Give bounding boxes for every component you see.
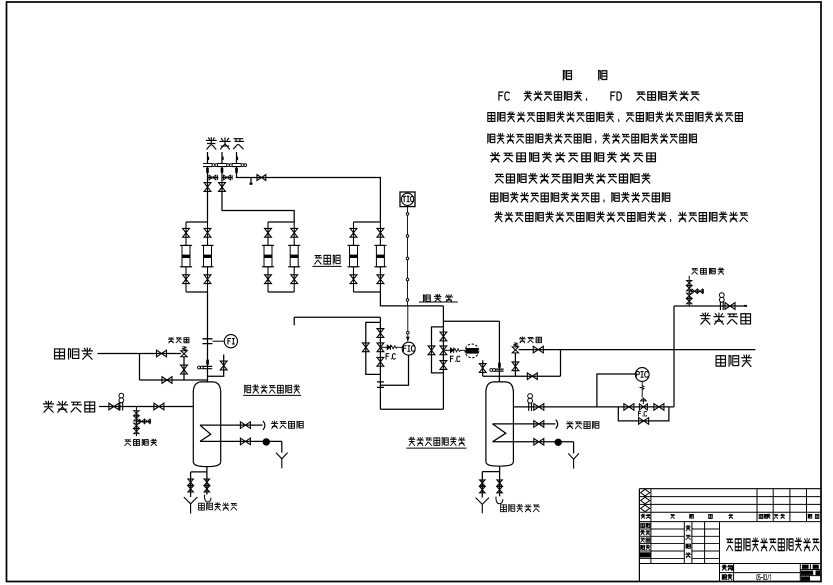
pressure-reduction main line: [442, 306, 444, 409]
steam valve lower (V2): [534, 439, 544, 446]
arrestor pair 2 bottom header: [268, 291, 294, 293]
instrument FIC text: [403, 346, 414, 352]
flame arrestor 3B (arm): [379, 222, 381, 292]
instrument TRC text: [466, 348, 479, 354]
flame arrestor 1B (arm): [207, 222, 209, 292]
HP spectacle blind (vessel side): [529, 403, 532, 411]
branch 1 tick: [207, 157, 209, 160]
label chui-sao-zheng-qi left: [125, 439, 157, 445]
arrestor pair 3 bottom header: [354, 291, 381, 293]
branch 1 valve: [204, 183, 211, 192]
PSV-1 inlet line: [183, 357, 185, 380]
LP spectacle blind: [120, 403, 123, 411]
label F.C (station 2): [450, 356, 459, 362]
label F.C (station 1): [386, 354, 395, 360]
station-1 block valve upper: [377, 329, 384, 338]
LP purge steam branch: [135, 407, 137, 437]
vessel-1 flare header valve: [162, 377, 172, 384]
vessel-2 flange marks: [490, 369, 493, 372]
instrument PIC text: [636, 372, 648, 378]
label jin-huo-ju (burner inlet): [206, 138, 243, 149]
label an-quan-fa left (safety valve): [168, 337, 189, 342]
arrestor pair 3 top header: [354, 221, 381, 223]
HP inlet valve: [725, 303, 735, 310]
drain funnel (V1 steam): [276, 453, 288, 469]
left drain valve (V2): [480, 480, 485, 486]
instrument FI text: [228, 339, 235, 345]
LP gas valve 2: [154, 403, 164, 410]
PIC bypass loop: [618, 407, 669, 421]
drawing number: [757, 575, 771, 580]
HP inlet end tick: [744, 305, 747, 307]
instrument TRC circle (dashed): [465, 344, 479, 358]
title block left labels: [641, 523, 650, 527]
notes line 7: [495, 212, 666, 222]
label F.C (PIC): [638, 411, 646, 416]
flange mark circles 2: [227, 164, 230, 167]
vessel-1 bottom header: [191, 471, 207, 473]
station outlet header: [380, 408, 443, 410]
branch 3 lower line: [237, 166, 381, 222]
safety valve PSV-2: [512, 347, 518, 353]
label di-ya-wa-si (LP gas): [43, 401, 94, 412]
vessel-2 nozzle bold tick: [498, 363, 501, 368]
condensate drop (V1): [281, 441, 283, 452]
valve on branch-3 header: [257, 175, 266, 181]
HP purge steam branch: [688, 276, 690, 306]
drip stub on branch-3 header: [250, 178, 252, 183]
flange mark circles 1: [212, 164, 215, 167]
notes line 1a: [524, 91, 581, 100]
flare tee drop: [139, 354, 141, 381]
instrument FIC circle: [402, 342, 415, 355]
vessel-2 safety header: [483, 375, 561, 377]
title block bottom grid: [733, 564, 735, 582]
station-1 main line: [379, 317, 381, 409]
vertical specialty column text: [686, 526, 690, 531]
HP vessel block valve: [534, 404, 544, 411]
branch 3 tick: [236, 157, 238, 160]
vessel-2 riser: [498, 321, 500, 382]
label HP separator tank: [409, 437, 465, 445]
zu-huo-qi underline: [312, 265, 341, 267]
station-2 bypass loop: [432, 327, 444, 373]
label LP separator tank: [245, 385, 300, 393]
label qu-hui-shou-xi-tong right: [501, 504, 540, 511]
label zu-huo-qi (flame arrestor): [315, 255, 340, 264]
branch 2 stub valve: [224, 175, 231, 180]
vessel-1 nozzle flange: [203, 366, 212, 368]
burner flange pair: [203, 164, 212, 167]
station-1 feed header: [294, 316, 380, 318]
station-1 actuator takeoff: [380, 346, 387, 348]
station-1 pneumatic signal: [391, 346, 403, 349]
notes title shuo: [563, 70, 571, 79]
station-2 block valve upper: [440, 332, 447, 341]
sample stub below feed header: [293, 317, 295, 325]
label huo-ju-xian right (flare line): [716, 355, 751, 366]
steam valve upper (V2): [534, 421, 544, 428]
notes line 2: [488, 112, 614, 122]
steam continuation hook (V2): [556, 420, 558, 429]
steam trap (V2): [555, 439, 561, 445]
vessel-2 left drain: [481, 472, 483, 498]
vessel-2 nozzle flange: [495, 369, 503, 371]
notes title ming: [599, 70, 607, 79]
PIC control valve: [639, 404, 647, 410]
recovery J-hook (V1): [204, 495, 211, 502]
PIC pneumatic signal: [640, 381, 644, 397]
station-2 bypass valve: [428, 346, 435, 355]
vessel-2 vent branch: [482, 360, 484, 376]
flare tee down to safety header: [560, 350, 562, 377]
HP gas feed line: [513, 406, 674, 408]
station-2 control valve: [440, 346, 447, 355]
vessel-2 vent valve: [479, 364, 486, 373]
vessel-2 riser header: [443, 320, 499, 322]
vessel-1 coil upper line: [200, 424, 263, 426]
station-1 control valve: [377, 343, 384, 352]
flange mark circles 3: [241, 164, 244, 167]
branch 2 valve: [219, 183, 226, 192]
station-1 block valve lower: [377, 357, 384, 366]
pilot gas line: [380, 292, 443, 306]
station-1 bypass loop: [366, 322, 381, 374]
PIC block valve right: [654, 404, 664, 411]
station-2 pneumatic signal: [454, 349, 465, 352]
notes line 5: [495, 174, 650, 184]
revision diamond 3: [641, 505, 650, 512]
flame arrestor 3A (arm): [353, 222, 355, 292]
vessel-1 nozzle bold tick: [206, 360, 209, 365]
instrument PIC circle: [635, 368, 649, 382]
LP gas valve 1: [109, 403, 119, 410]
safety header valve (V2): [527, 373, 537, 380]
vessel V-1 LP gas separator: [193, 382, 220, 391]
notes line 1b: [637, 91, 699, 100]
vessel V-2 HP gas separator: [486, 382, 514, 391]
burner branch line 2: [221, 152, 223, 164]
title block frame and revision rows: [638, 489, 640, 582]
notes line 4: [491, 152, 656, 162]
burner flange pair: [232, 164, 241, 167]
HP spectacle blind (inlet): [720, 302, 723, 310]
vessel-1 right drain: [206, 472, 208, 495]
left drain valve (V1): [188, 479, 193, 485]
notes line 3: [488, 134, 591, 144]
flare line valve: [157, 350, 167, 357]
drain funnel (V2 steam): [568, 453, 579, 468]
vessel-2 coil lower line: [493, 441, 574, 443]
orifice flange pair (FI): [203, 339, 213, 344]
vessel-1 bottom nozzle: [206, 467, 208, 472]
branch 1 bold tick: [206, 168, 209, 173]
label chui-sao-zheng-qi right: [692, 268, 724, 274]
title block middle grid: [650, 522, 652, 564]
steam trap (V1): [263, 439, 269, 445]
label jia-re-zheng-qi right: [567, 421, 599, 428]
drain funnel (V2 bottom): [476, 498, 489, 514]
revision row headers: [641, 514, 650, 518]
branch 2 bold tick: [221, 168, 224, 173]
notes line 1 FD: [611, 92, 621, 100]
label qu-hui-shou-xi-tong left: [199, 503, 237, 510]
bottom label cells: [722, 565, 732, 570]
flame arrestor 2B (arm): [293, 222, 295, 292]
sheet/scale cells: [802, 565, 809, 569]
PIC block valve left: [624, 404, 634, 411]
branch 2 side stub: [222, 177, 233, 179]
label chang-ming-deng (pilot light): [423, 295, 452, 302]
station-2 positioner: [450, 348, 453, 353]
station-1 positioner: [387, 345, 390, 350]
flame arrestor 2A (arm): [267, 222, 269, 292]
branch 2 tick: [222, 157, 224, 160]
station-1 bypass valve: [362, 343, 369, 352]
drawing title text: [727, 538, 819, 551]
TIC signal line (capillary with beads): [407, 207, 409, 213]
vessel-2 bottom nozzle: [499, 466, 501, 471]
vessel-2 bottom header: [482, 471, 499, 473]
revision diamond 2: [641, 497, 650, 504]
branch 1 stub valve: [209, 175, 216, 180]
drain funnel (V1 bottom): [184, 497, 198, 514]
PSV-2 inlet valve: [512, 362, 519, 371]
burner branch line 3: [236, 152, 238, 164]
LP separator label underline: [243, 394, 301, 396]
steam valve lower (V1): [240, 438, 250, 445]
station-2 actuator takeoff: [443, 349, 450, 351]
instrument TIC square: [400, 192, 415, 207]
vessel-2 right drain: [499, 472, 501, 497]
flare line valve (PSV-2 discharge): [533, 346, 543, 353]
branch 3 bold tick: [235, 168, 238, 173]
flare line right: [519, 349, 756, 351]
vessel-1 left drain: [190, 472, 192, 497]
safety valve PSV-1: [181, 351, 187, 357]
arrestor pair 1 bottom header: [186, 291, 208, 293]
condensate drop (V2): [573, 442, 575, 454]
vessel-1 flare header: [140, 379, 208, 381]
label huo-ju-xian left (flare line): [55, 348, 93, 359]
instrument TIC circle: [401, 193, 413, 205]
right drain valve (V1): [204, 479, 209, 485]
PIC impulse line: [597, 374, 635, 407]
instrument FI circle: [224, 335, 237, 348]
TIC signal arrow into FIC: [407, 306, 409, 331]
burner branch line 1: [207, 152, 209, 164]
steam valve upper (V1): [240, 422, 250, 429]
right drain valve (V2): [497, 480, 502, 486]
PSV-1 inlet valve: [181, 365, 188, 374]
label jia-re-zheng-qi left (heating steam): [271, 421, 303, 428]
vessel-1 vent branch: [208, 355, 224, 377]
station-2 block valve lower: [440, 361, 447, 370]
chang-ming-deng underline: [419, 301, 458, 303]
steam continuation hook (V1): [263, 421, 265, 430]
branch 1 lower line: [207, 166, 209, 222]
FI impulse line: [213, 340, 225, 342]
recovery J-hook (V2): [496, 497, 503, 504]
HP separator label underline: [406, 447, 466, 449]
arrestor pair 1 top header: [186, 221, 208, 223]
orifice flange pair (station 1): [377, 382, 384, 388]
HP gas riser: [673, 306, 675, 407]
instrument TIC text: [403, 196, 414, 201]
vessel-1 coil lower line: [200, 440, 282, 442]
notes line 1 FC: [499, 92, 509, 100]
vessel-1 coil zigzag: [200, 425, 211, 441]
vessel-1 flange marks: [198, 366, 201, 369]
LP gas line: [99, 406, 193, 408]
notes line 6: [491, 192, 599, 202]
vessel-1 riser: [207, 292, 209, 382]
branch 1 side stub: [208, 177, 219, 179]
HP gas inlet line: [674, 305, 746, 307]
burner flange pair: [218, 164, 227, 167]
FIC impulse line: [380, 355, 408, 385]
label an-quan-fa right: [520, 337, 542, 343]
vessel-2 coil zigzag: [493, 424, 506, 442]
arrestor pair 2 top header: [268, 221, 294, 223]
vessel-1 vent valve: [220, 361, 227, 370]
branch 2 lower line: [222, 166, 294, 222]
flare line left: [98, 353, 182, 355]
vessel-2 coil upper line: [493, 423, 556, 425]
flame arrestor 1A (arm): [185, 222, 187, 292]
PSV-2 inlet line: [514, 353, 516, 376]
label gao-ya-wa-si (HP gas): [700, 313, 750, 324]
revision diamond 1: [641, 489, 650, 496]
PIC bypass valve: [639, 418, 649, 425]
